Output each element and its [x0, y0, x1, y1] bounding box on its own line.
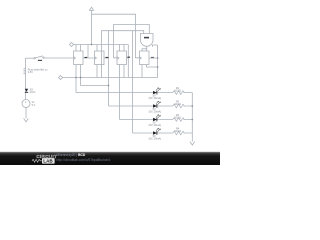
- resistor R2: [173, 100, 184, 107]
- wire FF1 top pins: [76, 45, 81, 52]
- wire top net H1 to FF4 clock: [92, 14, 140, 58]
- wire LED row 2: [109, 105, 193, 107]
- wire H6: [81, 85, 109, 87]
- switch SW1: [26, 56, 74, 61]
- node flag B: [59, 76, 63, 80]
- flip-flop U4: [140, 51, 154, 65]
- and gate U5: [141, 34, 154, 52]
- svg-text:0-5V: 0-5V: [28, 71, 33, 74]
- ground left: [24, 118, 29, 121]
- flip-flop U1: [74, 51, 88, 65]
- svg-text:+: +: [25, 100, 27, 104]
- wire FF4 Q loop: [149, 45, 158, 78]
- wire left source branch upper: [25, 58, 27, 99]
- svg-text:100 Ω: 100 Ω: [174, 103, 181, 106]
- flip-flop U2: [95, 51, 109, 65]
- wire lower bus B1: [63, 77, 158, 79]
- wire LED row 4: [133, 132, 193, 134]
- wire FF1 bottom pins: [76, 65, 81, 93]
- wire H3 drop to LED row 4: [132, 31, 134, 133]
- svg-text:100 Ω: 100 Ω: [174, 117, 181, 120]
- svg-text:CLK1: CLK1: [30, 91, 37, 94]
- svg-text:5 V: 5 V: [32, 104, 36, 107]
- wire FF3 bottom pins: [120, 65, 125, 120]
- resistor R1: [173, 87, 184, 94]
- junction dots: [75, 44, 193, 121]
- svg-text:http://circuitlab.com/c/57bpd8: http://circuitlab.com/c/57bpd8buhzb4: [57, 158, 111, 162]
- svg-text:(5V, 20mA): (5V, 20mA): [149, 111, 162, 114]
- voltage source V1: [22, 100, 36, 108]
- power flag VDD: [89, 7, 93, 14]
- wire FF2 bottom pins: [97, 51, 102, 78]
- node flag A: [70, 43, 74, 47]
- LED D1: [149, 88, 162, 100]
- wire LED row 1: [76, 92, 192, 94]
- watermark bar: [0, 152, 220, 165]
- svg-text:(5V, 20mA): (5V, 20mA): [149, 138, 162, 141]
- wire LED row 3: [120, 119, 193, 121]
- svg-text:(5V, 20mA): (5V, 20mA): [149, 97, 162, 100]
- LED D2: [149, 101, 162, 113]
- LED D3: [149, 115, 162, 127]
- flip-flop U3: [117, 51, 130, 65]
- svg-text:100 Ω: 100 Ω: [174, 130, 181, 133]
- wire right bus: [191, 93, 193, 142]
- svg-text:Mkennedy20 | BCD: Mkennedy20 | BCD: [57, 153, 86, 157]
- wire FF4 bottom pins: [142, 65, 158, 78]
- wire FF2 top-left pin: [96, 45, 98, 52]
- svg-text:100 Ω: 100 Ω: [174, 90, 181, 93]
- clock source ticks: [24, 68, 49, 74]
- wire H3 from AND left input across: [102, 31, 144, 51]
- wire below source: [25, 108, 27, 119]
- wire H4 upper bus: [74, 44, 129, 46]
- ground right: [190, 142, 195, 145]
- wire FF3 Q to H4 and B1: [127, 45, 129, 78]
- wire VDD drop to FF2 clock: [91, 14, 93, 44]
- LED D4: [149, 128, 162, 140]
- probe glyph D5: [25, 88, 36, 94]
- svg-text:LAB: LAB: [43, 159, 53, 164]
- wire x108.5 vertical H3 to LED row 2: [108, 31, 110, 106]
- resistor R4: [173, 127, 184, 135]
- svg-text:(5V, 20mA): (5V, 20mA): [149, 124, 162, 127]
- resistor R3: [173, 114, 184, 121]
- wire H2 from AND right input to FF3 clock: [114, 25, 150, 58]
- wire FF3 top pins: [120, 45, 125, 52]
- wire clock drop to FF2: [88, 45, 95, 59]
